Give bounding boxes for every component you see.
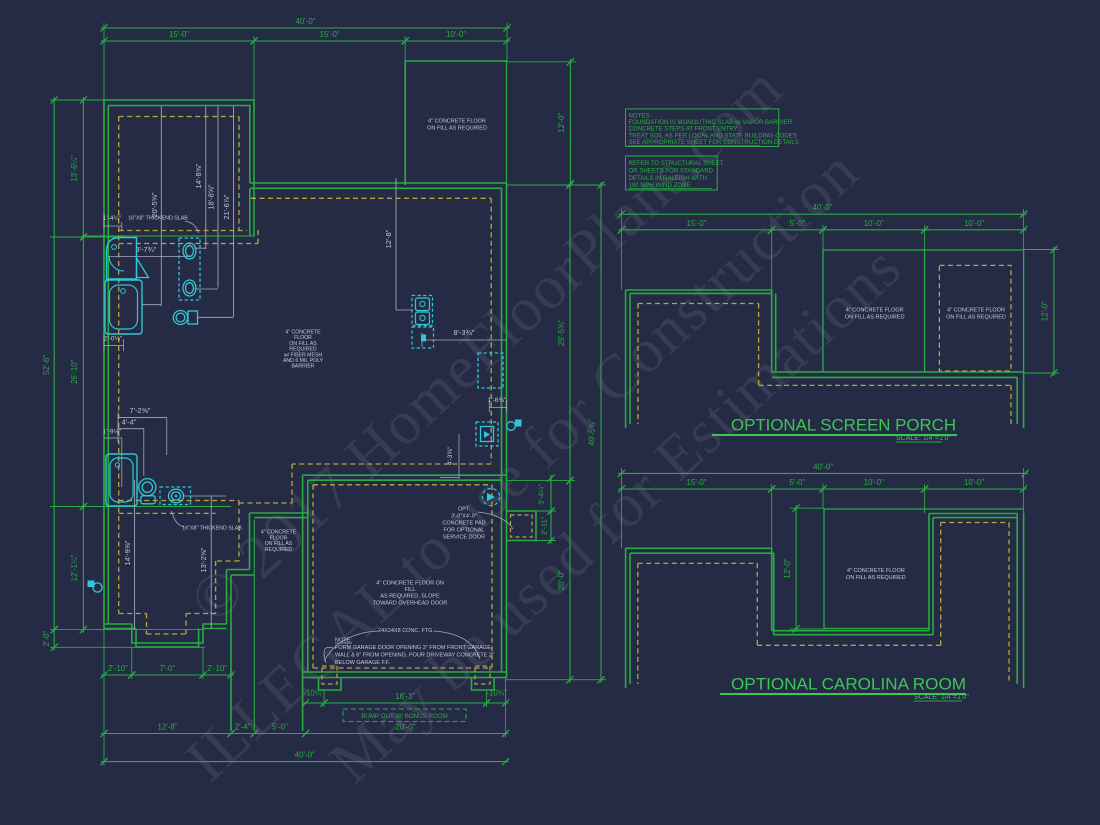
svg-text:2'-4": 2'-4" <box>235 723 251 732</box>
svg-text:12'-0": 12'-0" <box>557 112 566 132</box>
svg-text:NOTE:: NOTE: <box>335 638 352 644</box>
svg-text:14'-9⅝": 14'-9⅝" <box>123 540 132 565</box>
svg-text:OR SHEETS FOR STANDARD: OR SHEETS FOR STANDARD <box>629 167 714 174</box>
svg-text:12'-0": 12'-0" <box>1041 301 1050 321</box>
svg-text:40'-0": 40'-0" <box>813 462 833 471</box>
svg-text:3'-0"X4'-0": 3'-0"X4'-0" <box>451 514 477 520</box>
svg-text:40'-0": 40'-0" <box>812 203 832 212</box>
svg-text:10'-0": 10'-0" <box>864 478 884 487</box>
svg-text:2'-11": 2'-11" <box>540 516 549 534</box>
svg-text:12'-8": 12'-8" <box>384 229 393 248</box>
svg-text:29'-5⅝": 29'-5⅝" <box>557 319 566 346</box>
svg-text:2'-10": 2'-10" <box>108 664 128 673</box>
svg-text:15'-0": 15'-0" <box>169 30 189 39</box>
svg-text:18'-8⅝": 18'-8⅝" <box>207 184 216 209</box>
svg-text:20'-0": 20'-0" <box>395 723 415 732</box>
svg-text:20'-5⅝": 20'-5⅝" <box>150 192 159 217</box>
svg-text:5'-0": 5'-0" <box>272 723 288 732</box>
svg-text:2'-0¼": 2'-0¼" <box>104 336 123 343</box>
svg-text:ON FILL AS REQUIRED: ON FILL AS REQUIRED <box>845 315 905 321</box>
svg-text:15'-0": 15'-0" <box>686 219 706 228</box>
svg-text:'-10¼": '-10¼" <box>485 689 507 698</box>
svg-text:SCALE: 1/4"=1'0": SCALE: 1/4"=1'0" <box>896 435 951 442</box>
svg-text:2'-0": 2'-0" <box>42 630 51 646</box>
svg-text:26'-10": 26'-10" <box>70 359 79 384</box>
svg-text:16"X8" THICKEND SLAB: 16"X8" THICKEND SLAB <box>182 526 242 532</box>
svg-text:4'-3⅝": 4'-3⅝" <box>447 446 454 465</box>
svg-text:4" CONCRETE FLOOR ON: 4" CONCRETE FLOOR ON <box>376 581 444 587</box>
svg-text:'-10¼": '-10¼" <box>302 689 324 698</box>
svg-text:52'-6": 52'-6" <box>42 355 51 375</box>
svg-text:TOWARD OVERHEAD DOOR: TOWARD OVERHEAD DOOR <box>373 600 448 606</box>
svg-text:4'-4": 4'-4" <box>122 418 137 427</box>
svg-text:CONCRETE PAD: CONCRETE PAD <box>442 521 485 527</box>
svg-text:24X24X8 CONC. FTG.: 24X24X8 CONC. FTG. <box>378 628 434 634</box>
svg-text:7'-0": 7'-0" <box>160 664 176 673</box>
svg-text:SEE APPROPRIATE SHEET FOR CONS: SEE APPROPRIATE SHEET FOR CONSTRUCTION D… <box>629 139 799 146</box>
svg-text:15'-0": 15'-0" <box>686 478 706 487</box>
svg-text:20'-0": 20'-0" <box>557 570 566 590</box>
svg-text:BELOW GARAGE F.F.: BELOW GARAGE F.F. <box>335 660 390 666</box>
svg-text:BUMP OUT W/ BONUS ROOM: BUMP OUT W/ BONUS ROOM <box>361 713 447 720</box>
svg-text:ON FILL AS REQUIRED: ON FILL AS REQUIRED <box>946 315 1006 321</box>
svg-text:DETAILS IN RALEIGH WITH: DETAILS IN RALEIGH WITH <box>629 175 707 182</box>
svg-text:8'-3¾": 8'-3¾" <box>454 328 475 337</box>
svg-text:5'-0": 5'-0" <box>790 219 806 228</box>
svg-text:10'-0": 10'-0" <box>446 30 466 39</box>
svg-text:OPTIONAL SCREEN PORCH: OPTIONAL SCREEN PORCH <box>731 417 956 435</box>
svg-text:10'-0": 10'-0" <box>964 219 984 228</box>
svg-text:16'-3": 16'-3" <box>395 692 415 701</box>
svg-text:OPT.: OPT. <box>458 507 471 513</box>
svg-text:4" CONCRETE FLOOR: 4" CONCRETE FLOOR <box>947 308 1005 314</box>
svg-text:AS REQUIRED, SLOPE: AS REQUIRED, SLOPE <box>380 594 440 600</box>
svg-text:49'-5⅝": 49'-5⅝" <box>588 419 597 446</box>
svg-text:REFER TO STRUCTURAL SHEET: REFER TO STRUCTURAL SHEET <box>629 160 724 167</box>
svg-text:4" CONCRETE FLOOR: 4" CONCRETE FLOOR <box>428 119 486 125</box>
svg-text:8'-7¾": 8'-7¾" <box>136 245 157 254</box>
svg-text:3'-4¼": 3'-4¼" <box>537 484 546 505</box>
svg-text:1'-9⅛": 1'-9⅛" <box>103 429 122 436</box>
svg-text:16"X8" THICKEND SLAB: 16"X8" THICKEND SLAB <box>128 216 188 222</box>
svg-text:13'-2⅝": 13'-2⅝" <box>199 547 208 572</box>
svg-text:15'-0": 15'-0" <box>320 30 340 39</box>
svg-text:FOR OPTIONAL: FOR OPTIONAL <box>444 528 485 534</box>
svg-text:10'-0": 10'-0" <box>864 219 884 228</box>
svg-text:OPTIONAL CAROLINA ROOM: OPTIONAL CAROLINA ROOM <box>731 676 966 694</box>
svg-text:21'-6⅞": 21'-6⅞" <box>222 194 231 219</box>
svg-text:SERVICE DOOR: SERVICE DOOR <box>443 535 485 541</box>
svg-text:7'-2⅝": 7'-2⅝" <box>130 406 151 415</box>
svg-text:1'-8¾": 1'-8¾" <box>488 397 507 404</box>
svg-text:13'-6¼": 13'-6¼" <box>70 155 79 182</box>
svg-text:WALL & 6" FROM OPENING, POUR D: WALL & 6" FROM OPENING, POUR DRIVEWAY CO… <box>335 653 494 659</box>
svg-text:BARRIER: BARRIER <box>291 364 314 370</box>
svg-text:12'-8": 12'-8" <box>157 723 177 732</box>
svg-text:SCALE: 1/4"=1'0": SCALE: 1/4"=1'0" <box>914 694 969 701</box>
svg-text:2'-10": 2'-10" <box>207 664 227 673</box>
svg-text:ON FILL AS REQUIRED: ON FILL AS REQUIRED <box>846 575 906 581</box>
svg-text:10'-0": 10'-0" <box>964 478 984 487</box>
svg-text:4" CONCRETE FLOOR: 4" CONCRETE FLOOR <box>847 568 905 574</box>
svg-text:5'-0": 5'-0" <box>790 478 806 487</box>
svg-text:14'-8⅝": 14'-8⅝" <box>194 163 203 188</box>
svg-text:FORM GARAGE DOOR OPENING 3" FR: FORM GARAGE DOOR OPENING 3" FROM FRONT G… <box>335 645 491 651</box>
svg-text:REQUIRED: REQUIRED <box>265 547 293 553</box>
svg-text:40'-0": 40'-0" <box>295 17 315 26</box>
svg-text:12'-1¼": 12'-1¼" <box>70 554 79 581</box>
svg-text:1'-4¼": 1'-4¼" <box>103 215 122 222</box>
svg-text:40'-0": 40'-0" <box>295 751 315 760</box>
svg-text:FILL: FILL <box>404 587 415 593</box>
svg-text:ON FILL AS REQUIRED: ON FILL AS REQUIRED <box>427 126 487 132</box>
svg-text:4" CONCRETE FLOOR: 4" CONCRETE FLOOR <box>846 308 904 314</box>
svg-text:12'-0": 12'-0" <box>783 558 792 578</box>
